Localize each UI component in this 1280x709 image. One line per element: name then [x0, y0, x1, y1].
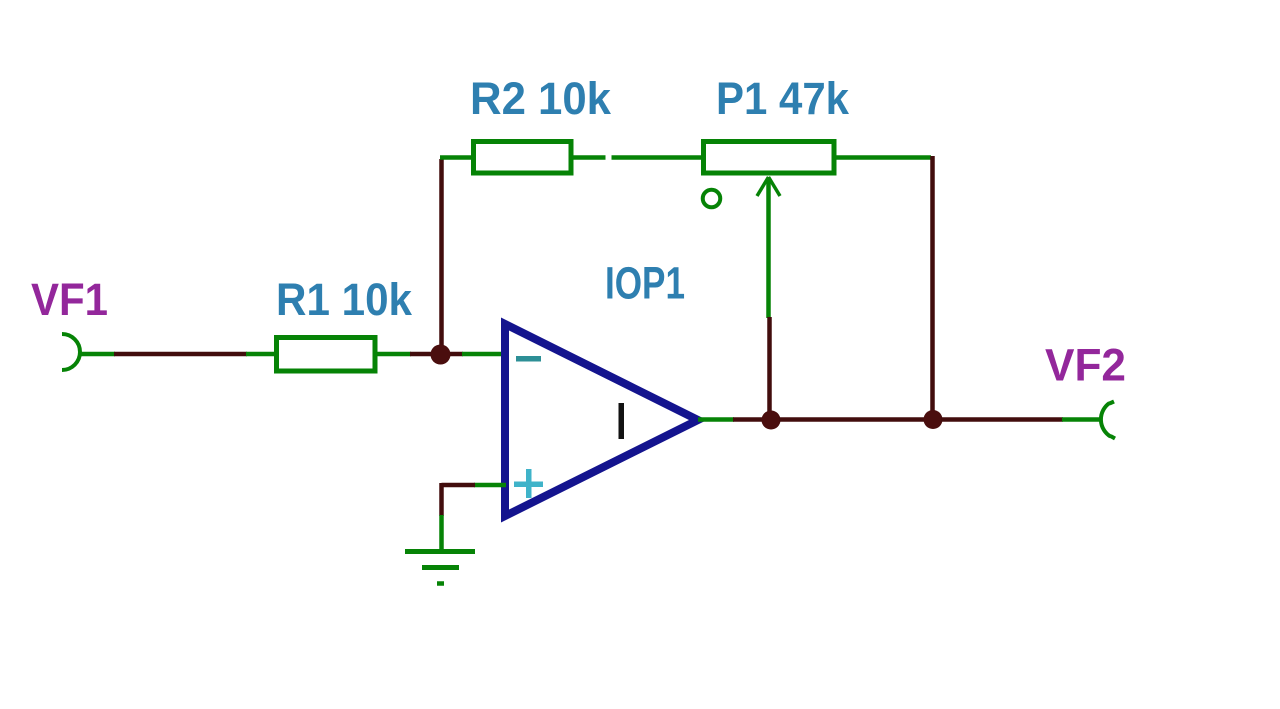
- wire maroon node C to output: [941, 417, 1063, 422]
- label VF2: [1045, 340, 1126, 391]
- ground: [405, 552, 475, 584]
- wire maroon node B to node C: [779, 417, 925, 422]
- node B junction dot: [762, 411, 781, 430]
- wire green P1 to right corner: [836, 155, 931, 160]
- wire green into R1: [246, 352, 275, 357]
- wire maroon noninverting vertical: [439, 483, 444, 516]
- wire green gap to P1: [612, 155, 703, 160]
- label R1 10k: [276, 274, 413, 325]
- svg-text:IOP1: IOP1: [605, 258, 685, 309]
- wire maroon node A to opamp side: [447, 352, 463, 357]
- op-amp U1 triangle: [505, 324, 698, 516]
- wire maroon noninverting horizontal: [442, 483, 476, 488]
- wire input green stub from terminal: [80, 352, 115, 357]
- potentiometer P1 marker circle o: [703, 190, 721, 208]
- label P1 47k: [716, 73, 850, 124]
- label IOP1: [605, 258, 685, 309]
- svg-text:R2 10k: R2 10k: [470, 73, 612, 124]
- svg-text:VF1: VF1: [31, 274, 108, 325]
- svg-text:P1 47k: P1 47k: [716, 73, 850, 124]
- resistor R2: [474, 142, 572, 174]
- potentiometer P1 body: [704, 142, 835, 174]
- resistor R1: [277, 338, 376, 372]
- label VF1: [31, 274, 108, 325]
- wire wiper maroon lower segment: [767, 317, 772, 413]
- label R2 10k: [470, 73, 612, 124]
- wire input maroon segment: [114, 352, 247, 357]
- wire green out of R1: [377, 352, 411, 357]
- wire right vertical maroon: [930, 156, 935, 413]
- op-amp U1 ideal bar: [619, 403, 625, 439]
- node C junction dot: [924, 410, 943, 429]
- wire green opamp output stub: [698, 417, 734, 422]
- wire green R2 to gap: [574, 155, 606, 160]
- svg-text:R1 10k: R1 10k: [276, 274, 413, 325]
- wire maroon to node A: [410, 352, 434, 357]
- op-amp U1 plus sign: [514, 469, 543, 498]
- terminal VF2 (output): [1101, 402, 1115, 439]
- wire green to ground: [439, 515, 444, 551]
- wire green into opamp inverting input: [462, 352, 506, 357]
- wire maroon output to node B: [733, 417, 763, 422]
- terminal VF1 (input): [62, 334, 80, 370]
- wire feedback vertical maroon: [439, 159, 444, 348]
- op-amp U1 minus sign: [516, 356, 541, 362]
- potentiometer P1 wiper arrow: [757, 177, 780, 318]
- svg-text:VF2: VF2: [1045, 340, 1126, 391]
- wire green to terminal VF2: [1062, 417, 1102, 422]
- node A junction dot: [431, 345, 451, 365]
- wire green noninverting input: [474, 483, 506, 488]
- wire green top corner to R2: [440, 155, 472, 160]
